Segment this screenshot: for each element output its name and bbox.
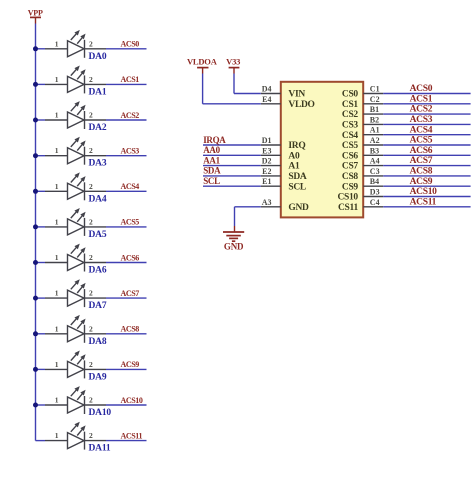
svg-text:SDA: SDA	[203, 166, 221, 176]
svg-text:A1: A1	[288, 162, 300, 172]
svg-text:DA1: DA1	[89, 87, 107, 97]
svg-text:GND: GND	[224, 242, 244, 252]
svg-text:ACS2: ACS2	[410, 105, 433, 115]
svg-text:A1: A1	[370, 126, 380, 135]
svg-text:IRQ: IRQ	[288, 141, 305, 151]
svg-text:DA6: DA6	[89, 266, 107, 276]
svg-text:ACS3: ACS3	[121, 147, 140, 156]
svg-text:CS4: CS4	[342, 131, 359, 141]
svg-text:D2: D2	[262, 157, 272, 166]
svg-text:D4: D4	[262, 85, 272, 94]
svg-text:B4: B4	[370, 177, 379, 186]
svg-text:DA4: DA4	[89, 194, 107, 204]
svg-text:DA5: DA5	[89, 230, 107, 240]
svg-text:ACS7: ACS7	[121, 289, 140, 298]
svg-text:ACS10: ACS10	[410, 187, 438, 197]
svg-text:ACS0: ACS0	[121, 40, 140, 49]
svg-text:E4: E4	[262, 95, 271, 104]
svg-text:A4: A4	[370, 157, 380, 166]
svg-text:E1: E1	[262, 177, 271, 186]
svg-text:GND: GND	[288, 203, 309, 213]
svg-text:ACS8: ACS8	[121, 325, 140, 334]
svg-text:ACS4: ACS4	[121, 182, 140, 191]
svg-text:CS1: CS1	[342, 100, 359, 110]
svg-text:ACS11: ACS11	[121, 431, 143, 440]
svg-text:CS5: CS5	[342, 141, 359, 151]
svg-text:ACS8: ACS8	[410, 167, 433, 177]
svg-text:V33: V33	[226, 56, 240, 66]
svg-text:CS11: CS11	[338, 203, 358, 213]
svg-text:ACS3: ACS3	[410, 115, 433, 125]
svg-text:AA0: AA0	[203, 145, 220, 155]
svg-text:A3: A3	[262, 198, 272, 207]
svg-text:ACS0: ACS0	[410, 84, 433, 94]
svg-text:DA10: DA10	[89, 408, 112, 418]
svg-text:CS0: CS0	[342, 90, 359, 100]
svg-text:B2: B2	[370, 115, 379, 124]
svg-text:VLDOA: VLDOA	[187, 56, 218, 66]
svg-text:DA0: DA0	[89, 52, 107, 62]
svg-text:C3: C3	[370, 167, 380, 176]
svg-text:ACS11: ACS11	[410, 197, 437, 207]
svg-text:E2: E2	[262, 167, 271, 176]
svg-text:A2: A2	[370, 136, 380, 145]
svg-text:ACS1: ACS1	[121, 75, 140, 84]
svg-text:E3: E3	[262, 146, 271, 155]
svg-text:ACS10: ACS10	[121, 396, 143, 405]
svg-text:D1: D1	[262, 136, 272, 145]
svg-text:ACS9: ACS9	[410, 177, 433, 187]
svg-text:AA1: AA1	[203, 155, 220, 165]
svg-text:DA9: DA9	[89, 372, 107, 382]
svg-text:VPP: VPP	[28, 8, 43, 17]
svg-text:ACS9: ACS9	[121, 360, 140, 369]
svg-text:SCL: SCL	[288, 182, 306, 192]
svg-text:SDA: SDA	[288, 172, 307, 182]
svg-text:VIN: VIN	[288, 90, 305, 100]
svg-text:DA8: DA8	[89, 337, 107, 347]
svg-text:B1: B1	[370, 105, 379, 114]
svg-text:C2: C2	[370, 95, 380, 104]
svg-text:ACS6: ACS6	[410, 146, 433, 156]
svg-text:CS3: CS3	[342, 121, 359, 131]
svg-text:CS7: CS7	[342, 162, 359, 172]
svg-text:ACS5: ACS5	[121, 218, 140, 227]
svg-text:DA7: DA7	[89, 301, 107, 311]
svg-text:CS8: CS8	[342, 172, 359, 182]
svg-text:C1: C1	[370, 85, 380, 94]
svg-text:C4: C4	[370, 198, 380, 207]
svg-text:CS10: CS10	[337, 193, 358, 203]
svg-text:ACS2: ACS2	[121, 111, 140, 120]
svg-text:DA11: DA11	[89, 444, 111, 454]
svg-text:CS6: CS6	[342, 151, 359, 161]
svg-text:VLDO: VLDO	[288, 100, 314, 110]
svg-text:A0: A0	[288, 151, 300, 161]
svg-text:CS9: CS9	[342, 182, 359, 192]
svg-text:ACS7: ACS7	[410, 156, 433, 166]
svg-text:ACS6: ACS6	[121, 253, 140, 262]
svg-text:ACS5: ACS5	[410, 136, 433, 146]
svg-text:IRQA: IRQA	[203, 135, 226, 145]
svg-text:ACS1: ACS1	[410, 94, 433, 104]
svg-text:B3: B3	[370, 146, 379, 155]
svg-text:DA3: DA3	[89, 159, 107, 169]
svg-text:DA2: DA2	[89, 123, 107, 133]
svg-text:SCL: SCL	[203, 176, 220, 186]
svg-text:D3: D3	[370, 188, 380, 197]
svg-text:CS2: CS2	[342, 110, 359, 120]
svg-text:ACS4: ACS4	[410, 125, 433, 135]
